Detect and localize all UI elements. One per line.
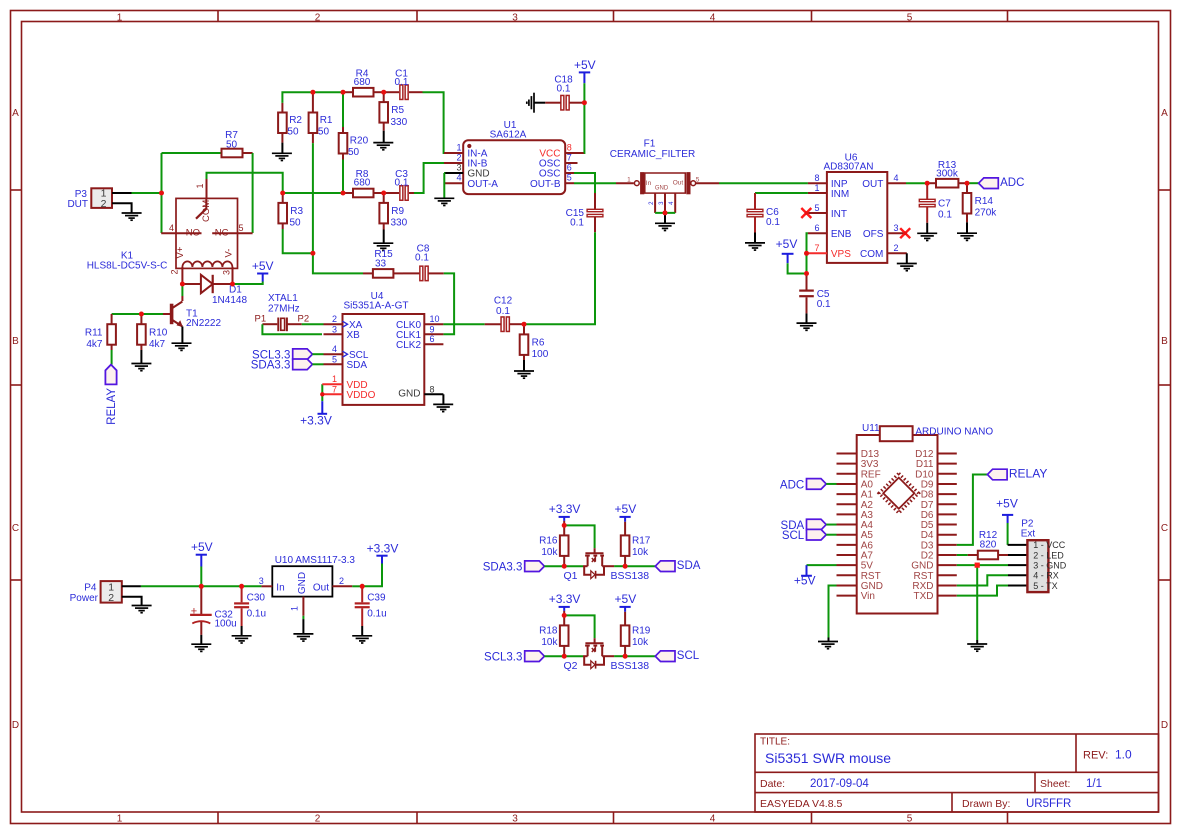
svg-text:5: 5 [814,203,819,213]
svg-text:6: 6 [814,223,819,233]
svg-text:SDA3.3: SDA3.3 [251,360,291,372]
svg-text:0.1: 0.1 [817,299,831,310]
svg-text:SCL: SCL [677,650,700,662]
svg-text:D: D [1161,720,1168,731]
resistor R12 [968,554,978,556]
svg-text:ARDUINO NANO: ARDUINO NANO [915,427,993,438]
svg-text:P4: P4 [84,583,97,594]
svg-text:1N4148: 1N4148 [212,295,247,306]
svg-text:F1: F1 [644,139,656,150]
svg-text:50: 50 [348,147,360,158]
svg-text:R14: R14 [975,196,994,207]
svg-text:2: 2 [332,314,337,324]
svg-text:A: A [1161,108,1168,119]
svg-text:+5V: +5V [794,573,816,587]
net flag ADC [979,178,999,189]
ground P4 pin2 [122,597,142,606]
wire to R7 and relay pin4 [161,153,163,233]
svg-text:C: C [1161,523,1168,534]
svg-text:BSS138: BSS138 [611,660,650,672]
wire R1 down to row 253 [312,143,314,253]
svg-text:+3.3V: +3.3V [300,413,332,427]
svg-text:2N2222: 2N2222 [186,318,221,329]
svg-text:SCL3.3: SCL3.3 [484,652,522,664]
wire U11 GND to ground [829,585,837,637]
svg-text:GND: GND [398,388,420,399]
svg-text:INM: INM [831,189,849,200]
wire drain Q2 [614,655,625,657]
svg-text:1.0: 1.0 [1115,748,1132,762]
svg-text:Si5351 SWR mouse: Si5351 SWR mouse [765,750,891,766]
svg-text:+3.3V: +3.3V [549,502,581,516]
ground U11 right [967,643,987,645]
wire relay pin1 to bus [207,173,283,193]
svg-text:0.1: 0.1 [570,218,584,229]
svg-text:1: 1 [456,143,461,153]
svg-text:4: 4 [894,173,899,183]
wire R3 bottom to row 253 [283,229,313,253]
wire C3 to U1 pin2 [414,163,455,193]
svg-text:6: 6 [430,334,435,344]
svg-text:ADC: ADC [780,479,804,491]
wire ENB-VPS [807,233,808,253]
capacitor C12 [485,323,501,325]
wire gate Q2 [564,615,594,638]
svg-text:7: 7 [567,153,572,163]
svg-text:+5V: +5V [252,259,274,273]
svg-text:10k: 10k [541,637,558,648]
svg-text:Q1: Q1 [563,570,577,582]
svg-text:ENB: ENB [831,229,852,240]
svg-text:Out: Out [313,582,329,593]
svg-text:R10: R10 [149,327,168,338]
wire CLK0 to C12 [443,323,484,325]
U6 pin stubs right [887,182,906,184]
net flag SDA to A4 [807,519,827,530]
svg-text:2017-09-04: 2017-09-04 [810,778,869,790]
ground C30 [241,626,243,636]
svg-text:OFS: OFS [863,229,884,240]
svg-text:VPS: VPS [831,249,851,260]
diode D1 [182,283,200,285]
resistor R13 [927,182,936,184]
ground R2 [281,143,283,154]
ground C32 [200,635,202,644]
svg-text:7: 7 [814,243,819,253]
svg-text:R16: R16 [539,536,558,547]
svg-text:B: B [1161,336,1168,347]
net flag RELAY right [987,469,1007,480]
svg-text:Q2: Q2 [563,660,577,672]
wire RXD to P2 pin4 [957,575,1008,585]
svg-text:1: 1 [117,12,123,23]
svg-text:2: 2 [456,153,461,163]
svg-text:1: 1 [117,814,123,825]
capacitor C39 [361,586,363,602]
wire U1 OUT-B to F1 [574,182,616,184]
title block [755,734,1159,812]
svg-text:SCL: SCL [782,530,805,542]
svg-text:6: 6 [567,163,572,173]
net flag ADC to A0 [807,479,827,490]
capacitor C32 electrolytic [200,586,202,614]
svg-text:4: 4 [169,223,174,233]
svg-text:HLS8L-DC5V-S-C: HLS8L-DC5V-S-C [87,261,168,272]
svg-text:Drawn By:: Drawn By: [962,798,1010,810]
wire collector [181,284,183,296]
svg-text:4: 4 [456,173,461,183]
svg-text:C39: C39 [367,592,386,603]
svg-text:8: 8 [567,143,572,153]
svg-text:1: 1 [195,183,205,188]
svg-text:7: 7 [332,384,337,394]
svg-text:Power: Power [70,593,99,604]
svg-text:5: 5 [332,354,337,364]
resistor R7 [222,149,243,158]
wire D1 to +5V [233,282,263,285]
svg-text:0.1: 0.1 [557,83,571,94]
svg-text:5: 5 [239,223,244,233]
svg-text:3: 3 [512,12,518,23]
wire +5V to U1 VCC [569,102,584,104]
resistor R3 [282,193,284,203]
svg-text:680: 680 [354,178,371,189]
wire TXD to P2 pin5 [957,585,1008,595]
svg-text:R18: R18 [539,626,558,637]
svg-text:+5V: +5V [996,497,1018,511]
capacitor C8 [403,272,420,274]
U4 pin stubs right [424,323,443,325]
net flag RELAY [105,365,116,385]
resistor R9 [383,193,385,203]
svg-text:P1: P1 [255,314,267,325]
ground C5 [806,313,808,323]
svg-text:GND: GND [655,186,669,192]
wire U11 GND right to P2 [957,564,1008,566]
svg-text:SDA3.3: SDA3.3 [483,562,523,574]
svg-text:0.1u: 0.1u [367,608,386,619]
capacitor C15 [594,193,596,209]
op-amp mixer U1 SA612A [463,140,565,194]
wire P3 pin1 [112,192,132,194]
svg-text:0.1: 0.1 [395,77,409,88]
svg-text:50: 50 [290,218,302,229]
svg-text:R19: R19 [632,626,651,637]
ground R10 [140,350,142,364]
capacitor C5 [806,274,808,290]
resistor R8 [343,192,353,194]
wire to +3.3V [362,564,382,587]
svg-text:In: In [646,180,652,187]
svg-text:D: D [12,720,19,731]
wire INM to C6 [755,192,808,194]
svg-text:CLK2: CLK2 [396,340,421,351]
svg-text:DUT: DUT [67,199,88,210]
svg-text:+5V: +5V [615,502,637,516]
wire P4 pin1 [122,585,141,587]
svg-text:COM: COM [201,200,212,222]
wire C8 to U4 CLK1 [443,273,454,334]
svg-text:+3.3V: +3.3V [367,542,399,556]
ground F1 [664,213,666,223]
svg-text:SDA: SDA [677,560,701,572]
svg-text:3: 3 [894,223,899,233]
connector P3 [91,188,112,208]
svg-text:R9: R9 [391,206,404,217]
svg-text:A: A [12,108,19,119]
svg-text:C30: C30 [247,592,266,603]
wire top bus row A [282,92,343,103]
svg-text:0.1: 0.1 [496,306,510,317]
net flag SCL3.3 [293,349,313,360]
wire row B bus [283,192,343,194]
svg-text:2: 2 [894,243,899,253]
svg-text:XTAL1: XTAL1 [268,293,298,304]
U11 chip glyph [879,473,919,513]
svg-text:27MHz: 27MHz [268,304,300,315]
power +5V U11 5V pin [807,564,837,566]
net flag SDA3.3 [293,359,313,370]
svg-text:3: 3 [512,814,518,825]
wire down to R15 row [313,253,363,273]
svg-text:+3.3V: +3.3V [549,592,581,606]
svg-text:RELAY: RELAY [1009,466,1047,480]
ground T1 emitter [172,342,192,344]
svg-text:3: 3 [456,163,461,173]
U10 Out pin2 [332,585,352,587]
wire base [163,313,172,315]
clock generator U4 Si5351A-A-GT [343,314,425,405]
relay K1 [176,198,238,268]
log amp U6 AD8307AN [827,172,887,263]
svg-text:C12: C12 [494,296,513,307]
wire R13 to ADC flag [967,182,979,184]
U10 GND pin1 [302,597,304,616]
ceramic filter F1 [634,181,639,186]
svg-text:4: 4 [710,12,716,23]
svg-text:270k: 270k [975,208,998,219]
svg-text:10: 10 [430,314,440,324]
wire D3 to RELAY flag [957,475,988,545]
svg-text:0.1u: 0.1u [247,608,266,619]
capacitor C7 [926,183,928,199]
svg-text:0.1: 0.1 [938,209,952,220]
wire R11 to RELAY flag [111,350,113,365]
svg-text:50: 50 [287,126,299,137]
svg-text:U11: U11 [862,423,880,434]
transistor Q1 BSS138 [583,565,588,567]
resistor R14 [966,183,968,193]
wire OUT to R13 [906,182,927,184]
ground R6 [523,360,525,371]
svg-text:Si5351A-A-GT: Si5351A-A-GT [343,301,408,312]
ground R5 [383,131,385,143]
svg-text:2: 2 [101,198,107,210]
svg-text:10k: 10k [541,547,558,558]
svg-text:RELAY: RELAY [106,388,118,425]
svg-text:5: 5 [567,173,572,183]
wire C15 down to C12 node [524,232,595,324]
no-connect X INT [801,208,811,218]
ground P3 pin2 [112,203,132,213]
mcu U11 ARDUINO NANO [857,435,938,614]
svg-text:EASYEDA V4.8.5: EASYEDA V4.8.5 [760,798,842,810]
net flag SDA3.3 [525,561,545,572]
svg-text:0.1: 0.1 [395,178,409,189]
svg-text:5 - TX: 5 - TX [1033,581,1057,591]
svg-text:8: 8 [814,173,819,183]
capacitor C3 [384,192,399,194]
svg-text:R6: R6 [532,337,545,348]
svg-text:Out: Out [673,180,684,187]
ground C6 [754,233,756,243]
wire to C30 [201,585,241,587]
svg-text:1: 1 [332,374,337,384]
capacitor C6 [754,193,756,209]
wire D2 to R12 [957,554,968,556]
wire F1 out to U6 [696,182,719,184]
svg-text:3: 3 [222,270,232,275]
svg-text:R5: R5 [391,105,404,116]
svg-text:OUT: OUT [862,179,883,190]
ground C39 [361,626,363,636]
svg-text:2: 2 [315,12,321,23]
svg-text:300k: 300k [936,169,959,180]
wire P1 loop to XB [262,324,322,334]
wire gate Q1 [564,525,594,548]
power +3.3V U4 [321,394,323,401]
ground R14 [966,222,968,233]
capacitor C30 [241,586,243,602]
svg-text:680: 680 [354,77,371,88]
svg-text:4k7: 4k7 [86,339,103,350]
svg-text:330: 330 [391,218,408,229]
svg-text:Ext: Ext [1021,529,1036,540]
svg-text:4 - RX: 4 - RX [1033,571,1059,581]
svg-text:10k: 10k [632,547,649,558]
svg-text:D1: D1 [229,285,242,296]
svg-text:R17: R17 [632,536,651,547]
transistor Q2 BSS138 [583,655,588,657]
resistor R16 [563,525,565,535]
svg-text:8: 8 [430,384,435,394]
frame row ticks [11,189,22,191]
svg-text:3: 3 [259,576,264,586]
resistor R19 [624,612,626,626]
svg-text:4: 4 [332,344,337,354]
svg-text:1 - VCC: 1 - VCC [1033,540,1066,550]
svg-text:U10 AMS1117-3.3: U10 AMS1117-3.3 [275,555,356,566]
resistor R10 [140,314,142,324]
net flag SCL3.3 [525,651,545,662]
svg-text:V+: V+ [175,246,186,258]
wire P2 to XA [302,323,324,325]
ground COM [906,253,908,263]
svg-text:+5V: +5V [615,592,637,606]
U1 pin stubs left [444,152,463,154]
ground U11 left [818,641,838,643]
U1 pin stubs right [565,152,584,154]
svg-text:3 - GND: 3 - GND [1033,560,1067,570]
svg-text:R1: R1 [320,115,333,126]
svg-text:2: 2 [315,814,321,825]
svg-text:C7: C7 [938,198,951,209]
svg-text:+5V: +5V [776,237,798,251]
wire C1 to U1 pin1 [423,92,456,153]
svg-text:9: 9 [430,324,435,334]
U11 pin stubs left [837,453,857,455]
svg-text:0.1: 0.1 [766,217,780,228]
svg-text:NC: NC [215,228,229,239]
svg-text:R11: R11 [85,327,103,338]
resistor R17 [624,522,626,536]
svg-text:COM: COM [860,249,883,260]
svg-text:INT: INT [831,209,847,220]
svg-text:OUT-B: OUT-B [530,179,561,190]
resistor R20 [342,92,344,127]
svg-text:33: 33 [375,258,387,269]
svg-text:5: 5 [907,12,913,23]
svg-text:VDDO: VDDO [347,390,376,401]
svg-text:Vin: Vin [861,591,875,602]
connector P2 Ext [1027,540,1048,592]
wire VDD-VDDO [321,384,323,394]
wire F1 ground bus [655,212,675,214]
connector P4 [101,581,122,603]
wire U1 GND pin3 to ground [443,173,445,198]
wire emitter to ground [181,327,183,344]
svg-text:TXD: TXD [914,591,934,602]
svg-text:P3: P3 [75,189,88,200]
svg-text:XB: XB [347,330,361,341]
regulator U10 AMS1117-3.3 [272,566,332,596]
resistor R11 [111,314,113,324]
svg-text:4k7: 4k7 [149,339,166,350]
ground U10 [302,619,304,634]
wire R7 to relay pin5 [252,153,254,233]
resistor R5 [383,92,385,102]
svg-text:R2: R2 [289,115,302,126]
svg-text:3: 3 [332,324,337,334]
ground R9 [383,230,385,244]
svg-text:C: C [12,523,19,534]
wire U1 OSC pin6 to C15 [574,173,595,193]
svg-text:GND: GND [297,572,308,594]
svg-text:SDA: SDA [347,360,368,371]
svg-text:AD8307AN: AD8307AN [823,162,873,173]
U4 pin stubs left [324,323,343,325]
resistor R1 [312,92,314,112]
svg-text:2: 2 [170,269,180,274]
svg-text:100: 100 [532,349,549,360]
wire drain Q1 [614,565,625,567]
svg-text:TITLE:: TITLE: [760,737,790,748]
wire C30 to U10 [242,585,262,587]
wire U4 GND pin to ground [442,394,444,404]
resistor R4 [343,91,353,93]
U6 pin stubs left [808,182,827,184]
U11 pin stubs right [938,453,957,455]
svg-text:R3: R3 [290,206,303,217]
svg-text:BSS138: BSS138 [611,570,650,582]
ground C18 rotated [534,102,545,104]
svg-text:REV:: REV: [1083,750,1108,762]
svg-text:50: 50 [318,126,330,137]
svg-text:R20: R20 [350,136,369,147]
svg-text:OUT-A: OUT-A [467,179,498,190]
no-connect X OFS [900,228,910,238]
svg-text:820: 820 [980,540,997,551]
